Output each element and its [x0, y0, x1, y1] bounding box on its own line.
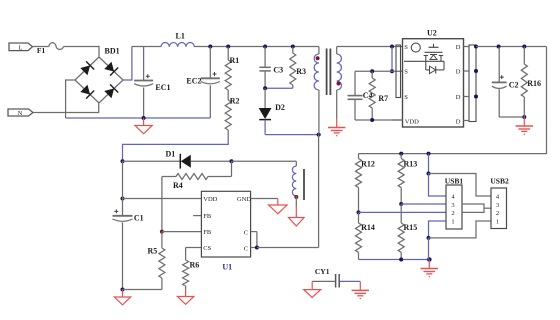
- svg-text:2: 2: [451, 210, 454, 217]
- svg-text:3: 3: [451, 202, 454, 209]
- svg-text:C2: C2: [509, 80, 519, 89]
- svg-text:USB1: USB1: [445, 176, 464, 185]
- svg-text:R6: R6: [190, 261, 200, 270]
- svg-text:R4: R4: [173, 181, 183, 190]
- svg-text:1: 1: [451, 219, 454, 226]
- svg-text:D2: D2: [275, 103, 285, 112]
- svg-text:C3: C3: [273, 66, 283, 75]
- svg-text:USB2: USB2: [490, 177, 509, 186]
- svg-text:D: D: [456, 68, 461, 75]
- svg-text:D: D: [456, 44, 461, 51]
- svg-text:S: S: [404, 94, 408, 101]
- svg-text:D: D: [456, 94, 461, 101]
- svg-text:S: S: [404, 44, 408, 51]
- svg-text:N: N: [18, 110, 23, 117]
- svg-text:U1: U1: [222, 262, 232, 271]
- svg-text:R2: R2: [230, 97, 240, 106]
- svg-text:R7: R7: [378, 94, 388, 103]
- svg-text:FB: FB: [203, 213, 212, 220]
- svg-text:CS: CS: [203, 245, 211, 252]
- svg-text:1: 1: [496, 219, 499, 226]
- svg-text:R12: R12: [361, 159, 375, 168]
- svg-text:R15: R15: [404, 223, 418, 232]
- svg-text:C: C: [244, 245, 248, 252]
- svg-text:R5: R5: [148, 247, 158, 256]
- svg-text:C: C: [244, 229, 248, 236]
- svg-text:L: L: [19, 44, 23, 51]
- svg-text:FB: FB: [203, 229, 212, 236]
- svg-text:R13: R13: [404, 159, 418, 168]
- svg-text:F1: F1: [37, 46, 46, 55]
- svg-text:L1: L1: [176, 31, 185, 40]
- svg-text:U2: U2: [427, 28, 437, 37]
- svg-text:R16: R16: [527, 79, 541, 88]
- svg-text:VDD: VDD: [203, 196, 217, 203]
- svg-text:BD1: BD1: [105, 47, 120, 56]
- svg-text:CY1: CY1: [315, 267, 330, 276]
- svg-text:VDD: VDD: [405, 119, 419, 126]
- svg-text:R1: R1: [230, 56, 240, 65]
- svg-text:EC1: EC1: [155, 83, 170, 92]
- svg-text:R14: R14: [361, 223, 375, 232]
- svg-text:R3: R3: [296, 67, 306, 76]
- svg-text:2: 2: [496, 210, 499, 217]
- svg-text:EC2: EC2: [186, 77, 201, 86]
- svg-text:D: D: [456, 119, 461, 126]
- svg-text:C1: C1: [134, 214, 144, 223]
- svg-text:D1: D1: [166, 150, 176, 159]
- svg-text:3: 3: [496, 202, 499, 209]
- svg-text:S: S: [404, 68, 408, 75]
- svg-text:GND: GND: [237, 196, 251, 203]
